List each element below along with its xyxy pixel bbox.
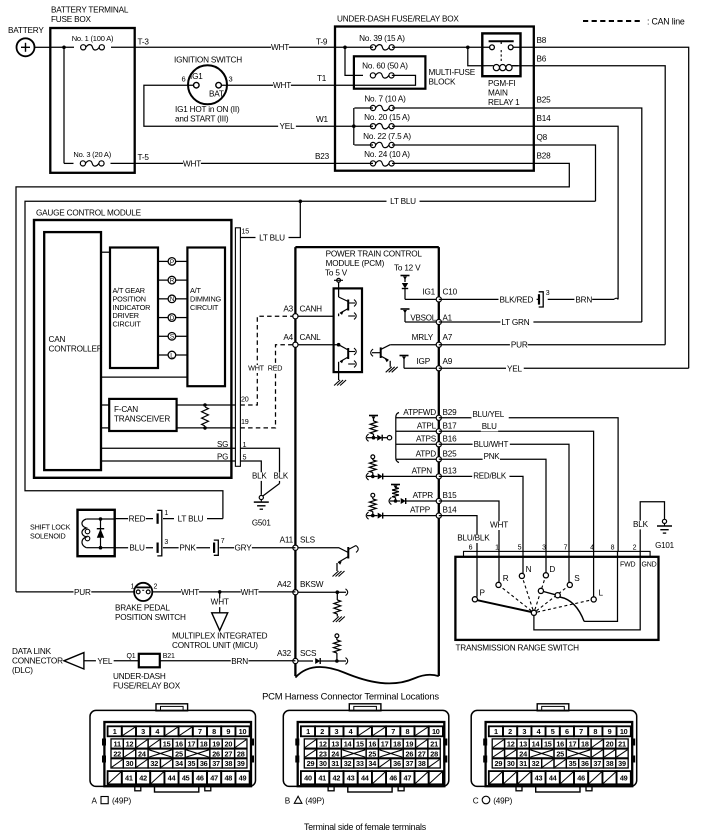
svg-text:8: 8: [611, 544, 615, 551]
svg-text:W1: W1: [316, 115, 329, 124]
wiper bridge contacts: [538, 588, 560, 598]
svg-text:3: 3: [546, 290, 550, 297]
range switch pin stubs: [477, 551, 640, 556]
svg-text:47: 47: [210, 774, 218, 783]
dashed ray to L: [537, 600, 591, 612]
terminal B25 wire to VBSOL LT GRN: [534, 96, 642, 323]
legend CAN line: [583, 17, 685, 27]
pull-up network ATPR: [389, 485, 439, 505]
ignition switch: [174, 56, 242, 105]
svg-text:CIRCUIT: CIRCUIT: [113, 320, 142, 329]
wire T-5 to B23 WHT: [135, 152, 335, 169]
indicator lamp R: [158, 276, 187, 284]
svg-text:WHT: WHT: [183, 159, 201, 168]
svg-text:24: 24: [331, 749, 340, 758]
svg-text:A7: A7: [443, 333, 453, 342]
contact S: [567, 557, 580, 588]
svg-text:12: 12: [507, 739, 515, 748]
svg-text:WHT: WHT: [248, 363, 265, 372]
fuse No.7 (10A): [354, 95, 533, 111]
svg-text:PUR: PUR: [511, 341, 528, 350]
FWD GND labels: [620, 562, 657, 569]
svg-text:3: 3: [542, 544, 546, 551]
contact L: [591, 557, 603, 602]
svg-text:24: 24: [519, 749, 528, 758]
GND return path pin 2: [534, 557, 640, 630]
svg-text:RED: RED: [129, 515, 146, 524]
fuse No.60 (50A): [335, 62, 416, 86]
svg-text:A42: A42: [277, 580, 292, 589]
ground G501: [252, 495, 272, 527]
svg-text:4: 4: [155, 727, 160, 736]
svg-text:49: 49: [239, 774, 247, 783]
svg-text:36: 36: [393, 759, 401, 768]
svg-text:No. 1 (100 A): No. 1 (100 A): [72, 34, 114, 43]
svg-text:30: 30: [126, 759, 134, 768]
wire WHT brake to A42: [152, 588, 295, 598]
svg-text:17: 17: [187, 739, 195, 748]
svg-text:14: 14: [344, 739, 353, 748]
svg-text:25: 25: [175, 749, 183, 758]
wire B13 RED/BLK to range switch 5: [439, 471, 523, 551]
svg-text:30: 30: [507, 759, 515, 768]
svg-text:B14: B14: [443, 506, 458, 515]
svg-text:8: 8: [212, 727, 216, 736]
CAN wire RED pin19 to A4 dashed: [240, 345, 292, 428]
svg-text:BLU/WHT: BLU/WHT: [474, 440, 509, 449]
svg-text:GRY: GRY: [235, 544, 253, 553]
svg-text:CONTROLLER: CONTROLLER: [49, 345, 103, 354]
svg-text:YEL: YEL: [280, 122, 296, 131]
pin B15 ATPR: [413, 491, 458, 504]
svg-text:36: 36: [581, 759, 589, 768]
svg-text:12: 12: [126, 739, 134, 748]
svg-text:B: B: [285, 797, 291, 806]
wiper arm P position: [477, 600, 531, 612]
svg-text:1: 1: [113, 727, 117, 736]
under-dash pass-through Q1 B21: [113, 653, 181, 691]
svg-text:DATA LINK: DATA LINK: [12, 647, 52, 656]
svg-text:IG1: IG1: [422, 288, 435, 297]
svg-text:Terminal side of female termin: Terminal side of female terminals: [304, 822, 427, 832]
wire B17 BLU to range switch 4: [439, 422, 594, 552]
svg-text:3: 3: [164, 539, 168, 546]
range switch pin numbers: [469, 544, 637, 551]
svg-text:39: 39: [618, 759, 626, 768]
svg-text:47: 47: [404, 774, 412, 783]
svg-text:MULTI-FUSE: MULTI-FUSE: [429, 68, 476, 77]
pull-up network ATPP: [366, 493, 439, 519]
svg-text:1: 1: [306, 727, 310, 736]
indicator lamp L: [158, 351, 187, 359]
FWD return path pin 8: [584, 557, 617, 622]
terminal Q8 wire to LT BLU: [534, 133, 596, 201]
svg-text:No. 24 (10 A): No. 24 (10 A): [364, 150, 410, 159]
terminal B6 wire to MRLY PUR: [534, 55, 665, 345]
svg-text:15: 15: [356, 739, 364, 748]
svg-text:ATPS: ATPS: [416, 434, 437, 443]
svg-text:B25: B25: [443, 449, 458, 458]
svg-text:A1: A1: [443, 313, 453, 322]
svg-text:GND: GND: [642, 562, 657, 569]
svg-text:B16: B16: [443, 434, 458, 443]
indicator lamp P: [158, 258, 187, 266]
fuse No.3 (20A): [64, 150, 135, 166]
svg-text:B29: B29: [443, 408, 458, 417]
svg-text:GAUGE CONTROL MODULE: GAUGE CONTROL MODULE: [36, 209, 142, 218]
F-CAN transceiver: [109, 399, 176, 431]
svg-text:PGM-FI: PGM-FI: [488, 79, 515, 88]
svg-text:BLU/YEL: BLU/YEL: [473, 410, 505, 419]
svg-text:36: 36: [200, 759, 208, 768]
SLS driver transistor: [295, 546, 358, 577]
svg-text:MRLY: MRLY: [412, 333, 434, 342]
svg-text:ATPN: ATPN: [412, 466, 433, 475]
svg-text:19: 19: [406, 739, 414, 748]
svg-text:(49P): (49P): [305, 797, 324, 806]
svg-text:7: 7: [198, 727, 202, 736]
svg-text:42: 42: [333, 774, 341, 783]
pin B29 ATPFWD: [396, 408, 457, 421]
svg-text:(49P): (49P): [493, 797, 512, 806]
svg-text:11: 11: [114, 739, 121, 748]
svg-text:42: 42: [139, 774, 147, 783]
pin B14 ATPP: [410, 506, 457, 519]
gauge control module box: [34, 209, 231, 478]
svg-text:T-5: T-5: [138, 153, 150, 162]
svg-text:BLK: BLK: [252, 471, 267, 480]
svg-text:3: 3: [141, 727, 145, 736]
svg-text:A32: A32: [277, 649, 292, 658]
svg-text:T-3: T-3: [138, 38, 150, 47]
svg-text:L: L: [599, 589, 604, 598]
svg-text:BLU/BLK: BLU/BLK: [457, 533, 490, 542]
svg-text:ATPP: ATPP: [410, 506, 431, 515]
wire solenoid BLU to connector 3: [101, 544, 154, 554]
svg-text:16: 16: [175, 739, 183, 748]
gauge pin SG 1: [101, 440, 247, 449]
svg-text:B14: B14: [537, 114, 552, 123]
dashed ray to R: [501, 587, 531, 611]
wire controller to driver circuit: [101, 251, 110, 253]
VBSOL supply bar: [401, 309, 410, 322]
svg-text:44: 44: [168, 774, 177, 783]
wire PG BLK to G501: [240, 461, 267, 495]
svg-text:3: 3: [334, 727, 338, 736]
svg-text:RED/BLK: RED/BLK: [473, 471, 507, 480]
pin B25 ATPD: [396, 449, 457, 462]
svg-text:18: 18: [581, 739, 589, 748]
svg-text:21: 21: [430, 739, 438, 748]
svg-text:37: 37: [406, 759, 414, 768]
svg-text:2: 2: [508, 727, 512, 736]
svg-text:B6: B6: [537, 55, 547, 64]
svg-text:N: N: [170, 296, 175, 303]
wire ignition IG1 to W1 YEL: [144, 85, 335, 131]
svg-text:41: 41: [318, 774, 326, 783]
12V supply tap: [394, 264, 421, 283]
note IG1 HOT: [175, 105, 240, 124]
indicator lamp D: [158, 314, 187, 322]
svg-text:27: 27: [418, 749, 426, 758]
svg-text:LT GRN: LT GRN: [501, 318, 529, 327]
svg-text:10: 10: [620, 727, 628, 736]
relay output to B8: [513, 46, 534, 48]
A/T gear position indicator driver circuit: [110, 248, 158, 369]
svg-text:1: 1: [243, 440, 247, 449]
svg-text:A: A: [92, 797, 98, 806]
svg-text:20: 20: [606, 739, 614, 748]
svg-text:WHT: WHT: [211, 598, 229, 607]
solenoid coil: [82, 519, 101, 548]
svg-text:No. 60 (50 A): No. 60 (50 A): [362, 62, 408, 71]
diode to IG1: [402, 283, 408, 299]
PCM connector B (49P): [283, 704, 449, 806]
contact P: [472, 557, 485, 602]
wire LT BLU from connector 1: [163, 515, 223, 525]
connector 7: [213, 543, 215, 553]
CAN transceiver block in PCM: [334, 288, 362, 372]
wire GRY to pin A11: [220, 544, 296, 554]
svg-text:46: 46: [196, 774, 204, 783]
svg-text:25: 25: [368, 749, 376, 758]
svg-text:POSITION SWITCH: POSITION SWITCH: [115, 613, 186, 622]
wire pin 2 BLK to G101: [632, 502, 665, 552]
data link connector DLC: [12, 647, 84, 675]
svg-text:ATPD: ATPD: [416, 449, 437, 458]
ground G101: [655, 519, 675, 550]
svg-text:2: 2: [154, 584, 158, 591]
svg-text:SG: SG: [217, 440, 228, 449]
svg-text:FUSE BOX: FUSE BOX: [51, 15, 92, 24]
svg-text:23: 23: [319, 749, 327, 758]
svg-text:32: 32: [344, 759, 352, 768]
fuse No.20 (15A): [335, 113, 534, 129]
wire B29 BLU/YEL to range switch FWD: [439, 410, 618, 552]
svg-text:26: 26: [406, 749, 414, 758]
pin B13 ATPN: [412, 466, 458, 479]
contact N: [519, 557, 531, 579]
svg-text:19: 19: [212, 739, 220, 748]
svg-text:P: P: [480, 589, 486, 598]
svg-text:BRN: BRN: [575, 295, 592, 304]
svg-text:PNK: PNK: [179, 544, 196, 553]
svg-text:34: 34: [175, 759, 184, 768]
svg-text:13: 13: [331, 739, 339, 748]
pin A11 SLS: [280, 536, 316, 551]
svg-text:RED: RED: [268, 363, 283, 372]
svg-text:20: 20: [225, 739, 233, 748]
svg-text:46: 46: [577, 774, 585, 783]
svg-text:27: 27: [225, 749, 233, 758]
svg-text:POWER TRAIN CONTROL: POWER TRAIN CONTROL: [326, 250, 423, 259]
svg-text:39: 39: [237, 759, 245, 768]
wiper travel arc: [560, 597, 584, 621]
svg-text:B23: B23: [315, 152, 330, 161]
svg-text:25: 25: [556, 749, 564, 758]
svg-text:IGNITION SWITCH: IGNITION SWITCH: [174, 56, 242, 65]
svg-text:38: 38: [225, 759, 233, 768]
wire T-3 to T-9 WHT: [135, 38, 335, 53]
svg-text:BLK/RED: BLK/RED: [500, 295, 534, 304]
svg-text:BLU: BLU: [129, 544, 145, 553]
svg-text:44: 44: [361, 774, 370, 783]
svg-text:9: 9: [608, 727, 612, 736]
svg-text:B15: B15: [443, 491, 458, 500]
connector 1: [158, 510, 169, 524]
fuse No.22 (7.5A): [354, 132, 533, 148]
range switch connector strip: [464, 551, 651, 556]
svg-text:4: 4: [537, 727, 542, 736]
svg-text:To 12 V: To 12 V: [394, 264, 421, 273]
svg-text:No. 7 (10 A): No. 7 (10 A): [364, 95, 406, 104]
svg-text:CANL: CANL: [300, 333, 322, 342]
svg-text:VBSOL: VBSOL: [410, 313, 436, 322]
wire fuse39 to fuse60: [345, 47, 363, 75]
junction LT BLU pin15: [240, 200, 302, 243]
svg-text:PG: PG: [217, 453, 228, 462]
svg-text:43: 43: [535, 774, 543, 783]
svg-text:BRAKE PEDAL: BRAKE PEDAL: [115, 604, 170, 613]
svg-text:TRANSMISSION RANGE SWITCH: TRANSMISSION RANGE SWITCH: [456, 644, 580, 653]
contact D: [543, 557, 555, 578]
CAN wire WHT pin20 to A3 dashed: [240, 316, 292, 405]
svg-text:40: 40: [304, 774, 312, 783]
svg-text:CANH: CANH: [300, 305, 323, 314]
terminal B14 wire to IG1 BLK/RED: [534, 114, 618, 299]
svg-text:T-9: T-9: [316, 38, 328, 47]
MICU arrow: [172, 613, 268, 650]
svg-text:IGP: IGP: [416, 357, 430, 366]
svg-text:D: D: [549, 565, 555, 574]
brake pedal position switch: [115, 583, 186, 622]
svg-text:7: 7: [391, 727, 395, 736]
wire controller to dimming circuit: [101, 376, 187, 378]
svg-text:S: S: [170, 334, 174, 341]
multi-fuse block: [354, 56, 476, 88]
svg-text:34: 34: [368, 759, 377, 768]
svg-text:BLU: BLU: [482, 422, 497, 431]
battery terminal fuse box: [50, 6, 134, 173]
solenoid flyback diode: [97, 517, 104, 549]
svg-text:R: R: [503, 574, 509, 583]
svg-text:17: 17: [569, 739, 577, 748]
svg-text:IG1 HOT in ON (II): IG1 HOT in ON (II): [175, 105, 240, 114]
rotor pivot contact: [531, 610, 536, 615]
svg-text:A11: A11: [280, 536, 294, 545]
svg-text:T1: T1: [317, 74, 327, 83]
pin B17 ATPL: [396, 421, 457, 434]
svg-text:1: 1: [494, 727, 498, 736]
indicator lamp N: [158, 295, 187, 303]
svg-text:D: D: [170, 315, 175, 322]
svg-text:14: 14: [532, 739, 541, 748]
svg-text:PUR: PUR: [74, 588, 91, 597]
svg-text:A3: A3: [283, 305, 293, 314]
wire PNK to connector 7: [163, 544, 210, 554]
dashed ray to N: [523, 579, 533, 610]
svg-text:6: 6: [469, 544, 473, 551]
wire battery to fuse box: [35, 46, 51, 48]
BKSW input resistor: [295, 589, 347, 622]
svg-text:16: 16: [368, 739, 376, 748]
svg-text:SHIFT LOCK: SHIFT LOCK: [30, 523, 71, 532]
wire to fuse No.3: [63, 47, 65, 163]
relay coil to B6: [512, 65, 534, 67]
wire A9 YEL: [439, 364, 689, 374]
svg-text:G501: G501: [252, 519, 272, 528]
wire C10 BLK/RED connector BRN: [439, 290, 618, 307]
wire SG BLK to G501: [240, 448, 289, 496]
svg-text:5: 5: [243, 453, 247, 462]
svg-text:No. 22 (7.5 A): No. 22 (7.5 A): [363, 132, 411, 141]
svg-text:32: 32: [532, 759, 540, 768]
junction fuse7/20/22 feed: [352, 108, 356, 145]
gauge pin PG 5: [101, 453, 247, 462]
svg-text:38: 38: [418, 759, 426, 768]
wire ignition BAT to T1 WHT: [221, 74, 335, 91]
svg-text:29: 29: [495, 759, 503, 768]
svg-text:N: N: [526, 565, 532, 574]
svg-text:18: 18: [200, 739, 208, 748]
svg-text:3: 3: [229, 75, 233, 84]
svg-text:To 5 V: To 5 V: [325, 269, 348, 278]
svg-text:PNK: PNK: [484, 452, 501, 461]
indicator lamp S: [158, 332, 187, 340]
pull-up network ATP group: [366, 413, 399, 463]
junction node fuse39: [343, 46, 347, 50]
svg-text:7: 7: [579, 727, 583, 736]
svg-text:29: 29: [307, 759, 315, 768]
svg-text:A4: A4: [283, 333, 293, 342]
svg-text:41: 41: [125, 774, 133, 783]
wire LT BLU Q8 to gauge module: [25, 197, 596, 518]
svg-text:35: 35: [187, 759, 195, 768]
transceiver ground: [334, 372, 346, 385]
wire YEL DLC: [84, 657, 139, 667]
svg-text:19: 19: [241, 417, 249, 426]
svg-text:P: P: [170, 259, 174, 266]
svg-text:YEL: YEL: [97, 657, 113, 666]
svg-text:6: 6: [565, 727, 569, 736]
svg-text:15: 15: [242, 229, 250, 236]
svg-text:IG1: IG1: [190, 72, 203, 81]
svg-text:B21: B21: [163, 653, 175, 660]
svg-text:G101: G101: [655, 541, 675, 550]
svg-text:FUSE/RELAY BOX: FUSE/RELAY BOX: [113, 682, 181, 691]
svg-text:C10: C10: [443, 288, 458, 297]
PCM connector C (49P): [471, 704, 637, 806]
svg-text:21: 21: [618, 739, 626, 748]
svg-text:CONTROL UNIT (MICU): CONTROL UNIT (MICU): [172, 641, 258, 650]
svg-text:TRANSCEIVER: TRANSCEIVER: [114, 414, 170, 423]
svg-text:MULTIPLEX INTEGRATED: MULTIPLEX INTEGRATED: [172, 632, 268, 641]
svg-text:9: 9: [226, 727, 230, 736]
contact R: [496, 557, 509, 588]
wire B16 BLU/WHT to range switch 7: [439, 440, 569, 551]
svg-text:6: 6: [182, 75, 186, 84]
CAN termination resistor: [202, 403, 209, 430]
dashed ray to S: [536, 587, 567, 611]
transmission range switch box: [455, 557, 658, 653]
svg-text:ATPL: ATPL: [417, 421, 437, 430]
svg-text:FWD: FWD: [620, 562, 635, 569]
connector 3 solenoid: [158, 539, 169, 553]
svg-text:33: 33: [356, 759, 364, 768]
shift lock solenoid: [30, 510, 115, 556]
svg-text:31: 31: [519, 759, 527, 768]
svg-text:SLS: SLS: [300, 536, 316, 545]
